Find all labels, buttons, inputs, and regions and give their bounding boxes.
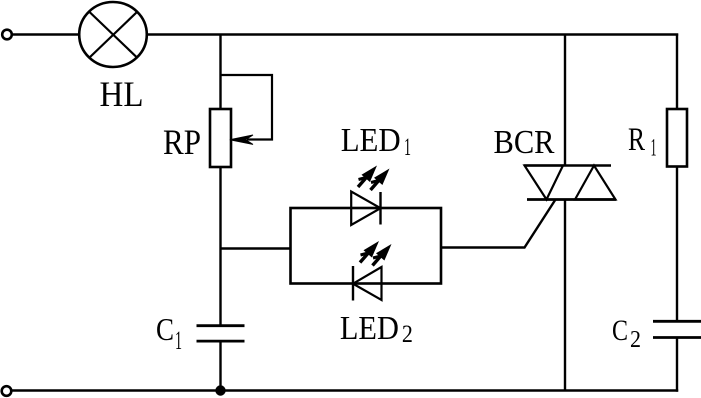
svg-text:C: C (156, 311, 174, 347)
wire top to RP (219, 34, 221, 110)
svg-text:2: 2 (630, 326, 641, 353)
capacitor C2 (653, 321, 701, 337)
wire MT1 bottom (564, 200, 566, 391)
svg-text:1: 1 (651, 135, 657, 162)
terminal top-left (2, 30, 12, 40)
wire vertical to LED box (221, 247, 291, 249)
svg-text:LED: LED (340, 310, 399, 347)
svg-text:1: 1 (175, 326, 182, 355)
LED1 light arrows (358, 166, 377, 188)
svg-text:RP: RP (163, 122, 201, 162)
svg-text:BCR: BCR (494, 124, 555, 161)
wire MT2 top (564, 34, 566, 166)
svg-text:R: R (628, 122, 645, 158)
wire C1 to bottom (219, 341, 221, 390)
wire lamp to top-right corner (147, 33, 678, 35)
svg-text:1: 1 (404, 134, 411, 161)
RP wiper arrow (230, 135, 253, 144)
potentiometer RP body (210, 109, 231, 167)
capacitor C1 (197, 326, 245, 341)
wire RP to C1 (219, 167, 221, 326)
LED D1 diode (351, 192, 380, 226)
triac BCR (524, 166, 616, 200)
RP rheostat branch wire (221, 75, 273, 140)
LED2 light arrows (360, 241, 379, 263)
gate wire from LED box to triac (441, 200, 556, 248)
resistor R1 (667, 109, 687, 167)
svg-text:LED: LED (341, 122, 401, 159)
svg-text:C: C (612, 314, 628, 347)
wire terminal to lamp (12, 33, 79, 35)
LED box (291, 208, 442, 284)
bottom wire (12, 389, 679, 391)
terminal bottom-left (2, 386, 12, 396)
LED D2 diode (353, 266, 382, 301)
svg-text:2: 2 (402, 321, 413, 348)
wire R1 to C2 (676, 167, 678, 322)
wire C2 to bottom (676, 338, 678, 392)
junction dot (215, 385, 225, 395)
lamp HL (79, 2, 147, 67)
svg-text:HL: HL (100, 74, 144, 114)
wire top-right to R1 (676, 34, 678, 110)
